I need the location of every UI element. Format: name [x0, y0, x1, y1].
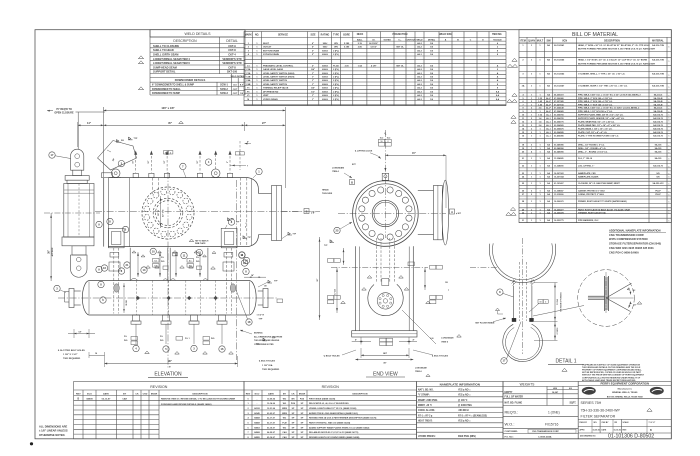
- set flush inside note: [475, 318, 506, 325]
- svg-text:1: 1: [669, 177, 670, 179]
- svg-text:X.1: X.1: [154, 260, 157, 262]
- svg-text:SA-350-LF2: SA-350-LF2: [652, 182, 664, 185]
- svg-text:FLGD: FLGD: [333, 65, 339, 67]
- svg-text:WN: WN: [334, 43, 338, 45]
- svg-text:INLET: INLET: [263, 43, 270, 45]
- svg-text:CAH: CAH: [122, 398, 127, 401]
- svg-text:06-102342: 06-102342: [554, 73, 565, 76]
- svg-text:03-13-97: 03-13-97: [102, 399, 112, 401]
- weld flag upper: [258, 280, 278, 287]
- svg-text:84903: 84903: [254, 426, 260, 429]
- svg-text:LONGSEAM: LONGSEAM: [441, 337, 453, 340]
- svg-text:03-304575: 03-304575: [554, 127, 564, 130]
- base dim small: [352, 337, 417, 345]
- davit balloon: [49, 152, 71, 159]
- base width dim: [355, 348, 413, 364]
- svg-text:SKT-100: SKT-100: [227, 70, 238, 74]
- svg-text:SA-333-6: SA-333-6: [654, 107, 663, 110]
- svg-text:PIPE MARKERS, 25-2: PIPE MARKERS, 25-2: [578, 219, 599, 222]
- svg-text:3/4": 3/4": [311, 68, 315, 71]
- svg-text:1/8: 1/8: [445, 282, 448, 284]
- svg-text:16": 16": [133, 160, 135, 163]
- svg-text:C3A: C3A: [246, 72, 251, 75]
- svg-text:F.S.: F.S.: [124, 336, 128, 338]
- end view vert dim right: [424, 267, 450, 292]
- svg-text:CHK BY: CHK BY: [602, 422, 610, 424]
- svg-text:WELD DETAILS: WELD DETAILS: [184, 32, 211, 36]
- svg-text:10-2: 10-2: [387, 137, 391, 139]
- svg-text:.063 INCH: .063 INCH: [458, 410, 469, 412]
- corner mark: [30, 442, 33, 445]
- left boxed tags: [328, 259, 341, 304]
- sump hidden internals: [136, 281, 218, 316]
- svg-text:X.1: X.1: [189, 260, 192, 262]
- svg-text:07-327165: 07-327165: [554, 104, 564, 106]
- svg-text:6" DOWNCOMER TO SHELL & SUMP: 6" DOWNCOMER TO SHELL & SUMP: [152, 84, 194, 87]
- svg-text:70° REQ'D TO: 70° REQ'D TO: [56, 108, 72, 111]
- svg-text:1.00: 1.00: [430, 338, 434, 340]
- svg-text:B: B: [306, 209, 308, 213]
- svg-text:RATING: RATING: [321, 33, 330, 36]
- svg-text:6000#: 6000#: [322, 76, 329, 78]
- svg-text:CORPORATION. ALL RIGHTS RESER: CORPORATION. ALL RIGHTS RESERVED UNDER P…: [582, 376, 641, 379]
- svg-text:5.189: 5.189: [344, 47, 350, 49]
- svg-text:AL-P: AL-P: [546, 103, 551, 106]
- svg-text:FLG, 1" 150 #S: FLG, 1" 150 #S: [578, 158, 593, 160]
- svg-text:400 DRAWING NO.: 400 DRAWING NO.: [580, 435, 596, 438]
- svg-text:8,A: 8,A: [496, 90, 500, 93]
- svg-text:F.S.: F.S.: [196, 257, 200, 259]
- svg-text:1: 1: [669, 167, 670, 169]
- svg-text:PNEUMATIC LEVEL CONTROL: PNEUMATIC LEVEL CONTROL: [263, 64, 294, 67]
- manway flange circle: [142, 187, 194, 239]
- right lifting lug: [211, 169, 222, 178]
- svg-text:1: 1: [669, 159, 670, 161]
- svg-text:2": 2": [312, 65, 314, 67]
- svg-text:16-306070: 16-306070: [554, 201, 564, 203]
- svg-text:DETAIL: DETAIL: [226, 39, 238, 43]
- svg-text:BUTTRE FORMED PER ASME SECTION: BUTTRE FORMED PER ASME SECTION 8, DIV. P…: [578, 62, 656, 65]
- svg-text:DETAIL 1: DETAIL 1: [555, 359, 576, 365]
- svg-text:WG: WG: [283, 398, 287, 400]
- svg-text:ITEM 4: ITEM 4: [415, 370, 422, 373]
- svg-text:MINERAL WELLS, TEXAS: MINERAL WELLS, TEXAS: [612, 391, 638, 394]
- svg-text:FORGINGS AND REVISE DETAILS (S: FORGINGS AND REVISE DETAILS (SAME 14860): [161, 403, 212, 406]
- svg-text:CORR. ALLOW.:: CORR. ALLOW.:: [418, 409, 436, 412]
- svg-text:CLOSURE, 36" I.D. 2460 PSIG MA: CLOSURE, 36" I.D. 2460 PSIG MAWP, MDMT: [578, 182, 620, 185]
- svg-text:SA-516-70: SA-516-70: [653, 117, 664, 120]
- detail tag boxes: [529, 300, 548, 312]
- svg-text:NAT. BD. FILING: NAT. BD. FILING: [505, 401, 523, 404]
- svg-text:2: 2: [545, 302, 546, 304]
- svg-text:C4B: C4B: [246, 83, 251, 86]
- end view centerlines: [338, 130, 446, 238]
- pipe weld hatch: [512, 280, 535, 286]
- svg-text:2": 2": [312, 54, 314, 56]
- svg-text:VENDOR'S STD: VENDOR'S STD: [222, 61, 241, 65]
- svg-text:ITEM 4: ITEM 4: [332, 170, 340, 173]
- svg-text:BORING:: BORING:: [254, 333, 263, 335]
- manufacturer title block: [578, 382, 671, 440]
- sump bottom tags: [124, 336, 233, 354]
- svg-text:06-102346: 06-102346: [554, 59, 565, 62]
- end view lifting lug: [382, 173, 388, 180]
- internal vane dashed lines: [153, 178, 247, 247]
- svg-text:PERRY EQUIPMENT CORPORATION: PERRY EQUIPMENT CORPORATION: [601, 382, 649, 386]
- bottom dimension line: [89, 352, 238, 368]
- svg-text:REV:: REV:: [623, 429, 628, 431]
- saddle balloons: [124, 248, 250, 273]
- svg-text:THINNER, RUSTOLEUM 7745: THINNER, RUSTOLEUM 7745: [578, 212, 607, 215]
- end view base plate: [352, 331, 417, 337]
- svg-text:TYP: TYP: [134, 138, 139, 140]
- svg-text:NAMEPLATE INFORMATION: NAMEPLATE INFORMATION: [440, 383, 480, 387]
- flange centerline ext: [282, 211, 303, 213]
- svg-text:1 (ONE): 1 (ONE): [548, 410, 560, 414]
- svg-text:LONGITUDINAL SEAM ITEM 4: LONGITUDINAL SEAM ITEM 4: [153, 57, 190, 61]
- bill of material table: [519, 30, 671, 223]
- svg-text:6000#: 6000#: [322, 80, 329, 82]
- svg-text:WG: WG: [283, 403, 287, 405]
- open closure note: [47, 108, 105, 115]
- svg-text:ENGR: ENGR: [299, 393, 306, 395]
- svg-text:1": 1": [312, 99, 314, 101]
- svg-text:6000#: 6000#: [322, 54, 329, 56]
- svg-text:ITEM 6: ITEM 6: [441, 341, 449, 343]
- overall length dimension 126: [104, 106, 286, 188]
- svg-text:SA: SA: [547, 85, 550, 88]
- svg-text:A: A: [451, 210, 453, 214]
- svg-text:LONGSEAM: LONGSEAM: [332, 166, 344, 169]
- svg-text:1: 1: [669, 47, 670, 49]
- svg-text:DATE: DATE: [268, 392, 274, 395]
- svg-text:APPD: APPD: [580, 428, 586, 431]
- svg-text:ECO: ECO: [255, 393, 260, 395]
- svg-text:DOWNCOMER TO SHELL: DOWNCOMER TO SHELL: [152, 88, 181, 91]
- svg-text:2: 2: [170, 152, 171, 154]
- svg-text:PIPE, SMLS, 2" SCH 160 x 3 1/8: PIPE, SMLS, 2" SCH 160 x 3 1/8" LG.: [578, 98, 613, 100]
- svg-text:1: 1: [669, 109, 670, 111]
- svg-text:SCW-1: SCW-1: [220, 84, 228, 87]
- svg-text:WEIGHTS: WEIGHTS: [520, 383, 535, 387]
- svg-text:KG: KG: [569, 388, 573, 390]
- svg-text:1: 1: [669, 121, 670, 123]
- svg-text:14 1/2": 14 1/2": [370, 46, 377, 49]
- svg-text:36": 36": [317, 278, 319, 281]
- svg-text:ADDITIONAL NAMEPLATE INFORMA: ADDITIONAL NAMEPLATE INFORMATION: [609, 229, 661, 233]
- weld flag 18: [256, 338, 276, 346]
- svg-text:AL-P: AL-P: [546, 97, 551, 100]
- svg-text:4 1/8": 4 1/8": [371, 64, 377, 67]
- svg-text:12-31-96: 12-31-96: [267, 408, 276, 410]
- svg-text:MDMT: -20 °F: MDMT: -20 °F: [418, 405, 433, 407]
- svg-text:30°: 30°: [632, 290, 635, 292]
- svg-text:03-19-97: 03-19-97: [267, 427, 276, 429]
- svg-text:MARK: MARK: [245, 33, 252, 36]
- flange weld flag: [282, 232, 297, 238]
- detail clip flag: [495, 308, 503, 314]
- svg-text:07-304065: 07-304065: [554, 110, 564, 113]
- end view sump circle: [368, 284, 403, 315]
- svg-text:CKT-8: CKT-8: [228, 48, 236, 52]
- svg-text:SA-516-70: SA-516-70: [653, 120, 664, 123]
- svg-text:11-328090: 11-328090: [554, 165, 564, 167]
- svg-text:84568: 84568: [254, 417, 260, 420]
- revision table 1: [74, 382, 244, 439]
- svg-text:WEB PLATE: WEB PLATE: [195, 242, 206, 245]
- svg-text:SA-516-70N: SA-516-70N: [652, 59, 664, 62]
- svg-text:06-306072: 06-306072: [554, 95, 564, 97]
- svg-text:6000#: 6000#: [322, 99, 329, 101]
- downcomer balloons left: [96, 266, 106, 303]
- svg-text:06-102341: 06-102341: [554, 44, 565, 47]
- svg-text:± 1/8" LINEAR UNLESS: ± 1/8" LINEAR UNLESS: [39, 429, 68, 433]
- svg-text:SA-516-70: SA-516-70: [653, 124, 664, 127]
- svg-text:1: 1: [669, 102, 670, 104]
- svg-text:1: 1: [669, 106, 670, 108]
- svg-text:W.S.: W.S.: [124, 340, 128, 342]
- top nozzles: [133, 151, 233, 178]
- svg-text:BY: BY: [283, 393, 287, 395]
- svg-text:01-101306 D-80502: 01-101306 D-80502: [608, 434, 654, 440]
- detail centerline: [522, 238, 524, 354]
- svg-text:16,067: 16,067: [552, 392, 559, 394]
- svg-text:5/8: 5/8: [231, 219, 234, 221]
- detail dim 13: [534, 283, 563, 322]
- svg-text:04-29-97: 04-29-97: [267, 431, 276, 434]
- svg-text:LONGSEAM: LONGSEAM: [415, 367, 427, 370]
- svg-text:6000#: 6000#: [322, 50, 329, 52]
- svg-text:1": 1": [312, 76, 314, 78]
- svg-text:MAWP: 2460 PSIG: MAWP: 2460 PSIG: [418, 399, 438, 402]
- svg-text:SET OL: SET OL: [396, 47, 404, 49]
- svg-text:SHELL TO HEAD: SHELL TO HEAD: [153, 48, 174, 52]
- bolt holes left note: [323, 350, 356, 357]
- svg-text:REVISION: REVISION: [322, 385, 340, 389]
- svg-text:1: 1: [669, 136, 670, 138]
- svg-text:PLATE, BEAR PAD, 1/2" x 14" x: PLATE, BEAR PAD, 1/2" x 14" x 8" x 3/4" …: [578, 124, 621, 127]
- svg-text:CKT-4: CKT-4: [228, 53, 236, 57]
- svg-text:ADDED SUPPORT WEAR PLATES ITEM: ADDED SUPPORT WEAR PLATES ITEMS 21 & 22 …: [309, 426, 370, 429]
- svg-text:SA: SA: [547, 59, 550, 62]
- svg-text:SQFT.: SQFT.: [569, 402, 576, 404]
- svg-text:1: 1: [669, 131, 670, 133]
- bom revision triangles: [506, 58, 518, 215]
- svg-text:1: 1: [669, 174, 670, 176]
- svg-text:3690 PSIG (MIN): 3690 PSIG (MIN): [458, 436, 476, 438]
- svg-text:MRM: MRM: [282, 408, 287, 410]
- svg-text:TYPE: TYPE: [333, 34, 339, 36]
- end view right nozzle: [418, 180, 449, 245]
- svg-text:1: 1: [669, 153, 670, 155]
- svg-text:84132: 84132: [254, 407, 260, 410]
- manway vertical dim: [158, 196, 165, 228]
- svg-text:1/8: 1/8: [256, 344, 259, 346]
- svg-text:SUPPORT, PLATE, WEB, 3/4" W x: SUPPORT, PLATE, WEB, 3/4" W x 1/2" x 62"…: [578, 113, 624, 116]
- svg-text:PIPE, SMLS, 2" SCH 160 x 2 7/8: PIPE, SMLS, 2" SCH 160 x 2 7/8" LG.: [578, 101, 613, 103]
- svg-text:SIZE: SIZE: [310, 34, 316, 36]
- svg-text:ECO: ECO: [87, 393, 92, 395]
- svg-text:03-304765: 03-304765: [554, 117, 564, 120]
- detail sump circle: [503, 324, 543, 361]
- svg-text:42" O.D.: 42" O.D.: [162, 209, 165, 217]
- svg-text:1"=1'-0": 1"=1'-0": [649, 422, 656, 424]
- svg-text:84908: 84908: [86, 398, 93, 401]
- svg-text:126" x 1/8": 126" x 1/8": [161, 106, 175, 110]
- svg-text:LEVEL SAFETY SWITCH (HIGH): LEVEL SAFETY SWITCH (HIGH): [263, 75, 295, 78]
- svg-text:CK: CK: [291, 393, 295, 395]
- svg-text:2 (PL): 2 (PL): [333, 91, 339, 93]
- svg-text:DWG BY: DWG BY: [580, 422, 588, 424]
- svg-text:24 15/16": 24 15/16": [369, 42, 378, 45]
- svg-text:1: 1: [669, 96, 670, 98]
- flange right tag: [277, 299, 283, 303]
- svg-text:1: 1: [669, 146, 670, 148]
- svg-text:W.S.: W.S.: [160, 340, 164, 342]
- closure hinge plate: [98, 137, 139, 170]
- svg-text:@ 2460 PSIG: @ 2460 PSIG: [458, 404, 472, 407]
- svg-text:OPEN CLOSURE: OPEN CLOSURE: [54, 112, 74, 115]
- hinge this side note: [322, 190, 333, 196]
- sump right labels: [257, 315, 265, 321]
- weld details table: [150, 30, 246, 95]
- tap note: [189, 239, 209, 245]
- svg-text:84568: 84568: [254, 421, 260, 424]
- svg-text:1: 1: [669, 213, 670, 215]
- elevation main shell: [104, 178, 282, 247]
- svg-text:CKT: CKT: [233, 89, 238, 91]
- lifting lug tags: [379, 133, 392, 147]
- weld details revision triangles: [138, 56, 143, 90]
- svg-text:REVISED LENGTH OF DOWNCOMERS (: REVISED LENGTH OF DOWNCOMERS (SAME 14838…: [309, 436, 360, 439]
- lifting lug note: [354, 150, 381, 159]
- right weld flags: [228, 218, 252, 239]
- svg-text:YES ■ NO □: YES ■ NO □: [458, 420, 471, 423]
- svg-text:6": 6": [247, 142, 249, 144]
- svg-text:PROPERTY OF PERRY EQUIPMENT CO: PROPERTY OF PERRY EQUIPMENT CORPORATION …: [582, 369, 642, 372]
- panel scallops: [130, 278, 208, 280]
- svg-text:13 1/4: 13 1/4: [556, 298, 559, 304]
- work line: [236, 180, 238, 360]
- sump right dim: [244, 274, 266, 278]
- svg-text:Manufacturers: Manufacturers: [618, 387, 633, 390]
- svg-text:DPI PRESS IND: DPI PRESS IND: [263, 91, 279, 93]
- svg-text:TWO REQUIRED: TWO REQUIRED: [63, 358, 81, 360]
- svg-text:SA-106-B: SA-106-B: [654, 97, 663, 100]
- svg-text:4": 4": [413, 338, 415, 341]
- svg-text:'V' STAMP:: 'V' STAMP:: [418, 394, 430, 397]
- svg-text:1: 1: [669, 75, 670, 77]
- svg-text:LUG, LIFTING, 1": LUG, LIFTING, 1": [578, 165, 594, 167]
- svg-text:THERMAL RELIEF VALVE: THERMAL RELIEF VALVE: [263, 87, 289, 90]
- svg-text:REV: REV: [246, 393, 251, 395]
- svg-text:PULP: PULP: [655, 194, 661, 196]
- svg-text:6000#: 6000#: [322, 91, 329, 93]
- svg-text:SUPPORT DETAIL: SUPPORT DETAIL: [153, 70, 176, 74]
- support saddle panels: [130, 248, 208, 281]
- svg-text:FIRST ISSUE (SAME 13209): FIRST ISSUE (SAME 13209): [309, 397, 335, 400]
- svg-text:6000#: 6000#: [322, 69, 329, 71]
- downcomer balloons: [96, 218, 235, 232]
- svg-text:15": 15": [412, 152, 416, 155]
- end view sump centerline: [331, 266, 497, 268]
- detail downcomer pipe: [514, 262, 532, 322]
- svg-text:5.189: 5.189: [344, 43, 350, 45]
- svg-text:REMOVE ITEM 17, REVISE DETAIL: REMOVE ITEM 17, REVISE DETAIL 1 TO INCLU…: [161, 398, 236, 401]
- svg-text:2 (PL): 2 (PL): [333, 88, 339, 90]
- svg-text:C2A: C2A: [246, 68, 251, 71]
- svg-text:1: 1: [669, 184, 670, 186]
- svg-text:BOX 999, MINERAL WELLS, TEXAS: BOX 999, MINERAL WELLS, TEXAS 76068: [607, 395, 643, 398]
- svg-text:3/4": 3/4": [311, 87, 315, 90]
- end view triangles: [341, 276, 431, 304]
- svg-text:MATERIAL: MATERIAL: [652, 40, 664, 43]
- dimension line 14-90-27: [78, 121, 286, 147]
- svg-text:DESCRIPTION: DESCRIPTION: [193, 393, 208, 395]
- svg-text:1: 1: [669, 221, 670, 223]
- svg-text:SA-516-70: SA-516-70: [653, 135, 664, 138]
- svg-text:10": 10": [148, 160, 150, 163]
- end view left balloon: [334, 222, 352, 234]
- svg-text:6000#: 6000#: [322, 84, 329, 86]
- svg-text:THE INNER OF FORGING: THE INNER OF FORGING: [561, 292, 563, 312]
- svg-text:FULL OF WATER: FULL OF WATER: [505, 396, 524, 399]
- svg-text:2 (PL): 2 (PL): [333, 54, 339, 56]
- svg-text:10: 10: [165, 152, 167, 154]
- svg-text:CAH: CAH: [282, 431, 287, 434]
- svg-text:WG: WG: [283, 427, 287, 429]
- svg-text:11-312090: 11-312090: [554, 194, 564, 196]
- svg-text:HEAD, 2" NOM x 36" I.D. 2:1 EL: HEAD, 2" NOM x 36" I.D. 2:1 ELLIP W/ 21"…: [578, 44, 650, 47]
- svg-text:1": 1": [312, 80, 314, 82]
- svg-text:2 (PL): 2 (PL): [333, 50, 339, 52]
- svg-text:1": 1": [312, 84, 314, 86]
- sump left balloon: [54, 285, 66, 292]
- svg-text:10: 10: [381, 141, 383, 143]
- svg-text:SHELL TO CLOSURE: SHELL TO CLOSURE: [153, 44, 179, 48]
- slotted bolt holes note: [57, 349, 85, 360]
- svg-text:BUTTRE FORMED PER ASME SECTION: BUTTRE FORMED PER ASME SECTION 8, DIV. P…: [578, 48, 656, 51]
- svg-text:03-304775: 03-304775: [554, 120, 564, 123]
- svg-text:OTHERWISE NOTED.: OTHERWISE NOTED.: [39, 433, 65, 437]
- svg-text:℄ LIFTING LUGS: ℄ LIFTING LUGS: [354, 150, 373, 153]
- svg-text:⌀ WT: ⌀ WT: [456, 212, 462, 215]
- sump vessel: [65, 281, 269, 316]
- svg-text:SET OL: SET OL: [396, 65, 404, 67]
- svg-text:2 (PL): 2 (PL): [333, 84, 339, 86]
- svg-text:PIPE, SMLS, 6 5/8" O.D. x 1 1/: PIPE, SMLS, 6 5/8" O.D. x 1 1/16" W x 11…: [578, 108, 640, 110]
- svg-text:CKT-9: CKT-9: [228, 44, 236, 48]
- svg-text:6 13/16: 6 13/16: [557, 327, 559, 335]
- svg-text:10-14-96: 10-14-96: [267, 402, 276, 405]
- svg-text:2 (PL): 2 (PL): [333, 95, 339, 97]
- svg-text:FILTER SEPARATOR: FILTER SEPARATOR: [581, 415, 616, 419]
- svg-text:BY: BY: [123, 393, 127, 395]
- svg-text:SA-516-70: SA-516-70: [653, 164, 664, 167]
- svg-text:SHELL GIRTH SEAM: SHELL GIRTH SEAM: [153, 53, 178, 57]
- svg-text:SA-105: SA-105: [655, 151, 663, 154]
- svg-text:F.S. 1: F.S. 1: [185, 338, 190, 340]
- svg-text:CK: CK: [135, 393, 139, 395]
- svg-text:END VIEW: END VIEW: [373, 371, 398, 377]
- svg-text:SA-106-B: SA-106-B: [654, 110, 663, 113]
- svg-text:1 1/8" DIA.: 1 1/8" DIA.: [262, 364, 273, 367]
- saddle triangles: [146, 251, 216, 270]
- svg-text:CNG TRANSMISSION CORP.: CNG TRANSMISSION CORP.: [609, 233, 644, 237]
- svg-text:B: B: [650, 429, 652, 432]
- top nozzle balloons: [118, 159, 212, 178]
- svg-text:REVISED ITEM 3A UCN & PART/THI: REVISED ITEM 3A UCN & PART/THINNER DESCR…: [309, 417, 377, 420]
